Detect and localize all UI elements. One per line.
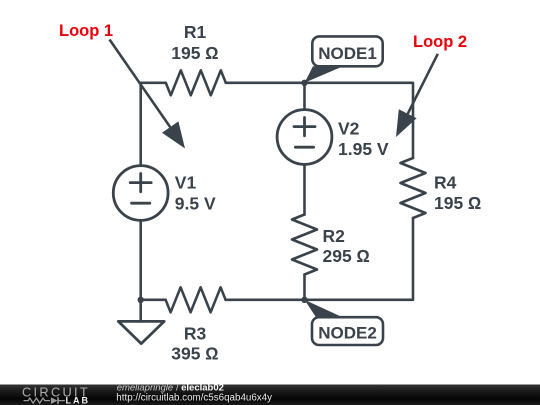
svg-text:R4: R4 [434, 173, 457, 193]
svg-text:R1: R1 [184, 22, 207, 42]
logo resistor-diode symbol [24, 397, 65, 404]
svg-text:195 Ω: 195 Ω [171, 43, 219, 63]
wire node1 to V2 top [303, 83, 306, 110]
node NODE2 callout [305, 300, 384, 345]
svg-text:V2: V2 [338, 119, 360, 139]
node dot ground junction [138, 297, 144, 303]
wire top-left corner to V1 top [141, 83, 166, 166]
node dot NODE1 junction [301, 80, 307, 86]
node NODE1 callout [305, 36, 383, 82]
wire R2 bottom to node2 [303, 275, 306, 300]
svg-text:R3: R3 [184, 323, 207, 343]
wire V2 bottom to R2 [303, 164, 306, 214]
svg-text:395 Ω: 395 Ω [171, 343, 219, 363]
ground [118, 321, 164, 343]
arrow Loop 1 [110, 40, 186, 149]
voltage source V1 [113, 166, 168, 221]
svg-text:Loop 2: Loop 2 [413, 33, 467, 51]
svg-text:R2: R2 [323, 226, 346, 246]
svg-text:http://circuitlab.com/c5s6qab4: http://circuitlab.com/c5s6qab4u6x4y [116, 393, 272, 404]
resistor R4 [401, 158, 426, 218]
svg-text:9.5 V: 9.5 V [175, 194, 216, 214]
wire ground lead [139, 300, 142, 322]
wire right rail bottom to bottom rail [226, 218, 413, 300]
svg-text:NODE1: NODE1 [318, 44, 377, 63]
svg-text:1.95 V: 1.95 V [338, 139, 389, 159]
resistor R2 [292, 215, 317, 275]
wire top rail right and down to R4 [226, 83, 413, 158]
resistor R1 [166, 70, 226, 95]
voltage source V2 [277, 110, 332, 165]
svg-text:195 Ω: 195 Ω [434, 193, 482, 213]
node dot NODE2 junction [301, 297, 307, 303]
svg-text:Loop 1: Loop 1 [59, 22, 113, 40]
resistor R3 [166, 287, 226, 312]
svg-text:V1: V1 [175, 173, 197, 193]
footer bar [0, 385, 540, 405]
svg-text:295 Ω: 295 Ω [323, 246, 371, 266]
svg-text:NODE2: NODE2 [318, 324, 377, 343]
svg-text:LAB: LAB [66, 395, 91, 405]
arrow Loop 2 [396, 54, 438, 137]
wire bottom-left: V1 bottom to rail corner [141, 220, 166, 299]
